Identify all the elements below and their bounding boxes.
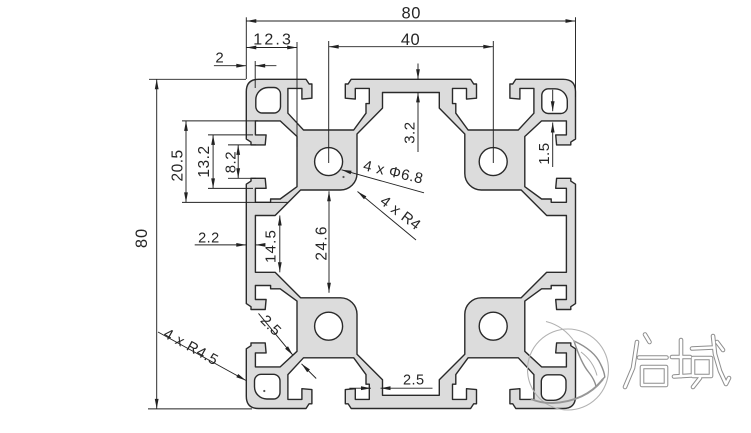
svg-text:8.2: 8.2: [223, 151, 240, 173]
svg-text:13.2: 13.2: [196, 145, 213, 177]
svg-text:40: 40: [401, 31, 420, 49]
svg-text:3.2: 3.2: [402, 121, 419, 143]
svg-text:80: 80: [402, 4, 421, 22]
svg-text:1.5: 1.5: [536, 142, 553, 164]
svg-text:12.3: 12.3: [253, 31, 293, 48]
svg-text:80: 80: [133, 228, 151, 248]
svg-text:2.2: 2.2: [198, 230, 220, 246]
svg-text:2: 2: [215, 49, 224, 66]
svg-text:14.5: 14.5: [263, 229, 280, 263]
svg-text:20.5: 20.5: [170, 149, 187, 181]
svg-text:24.6: 24.6: [314, 225, 331, 260]
svg-text:2.5: 2.5: [403, 373, 425, 389]
